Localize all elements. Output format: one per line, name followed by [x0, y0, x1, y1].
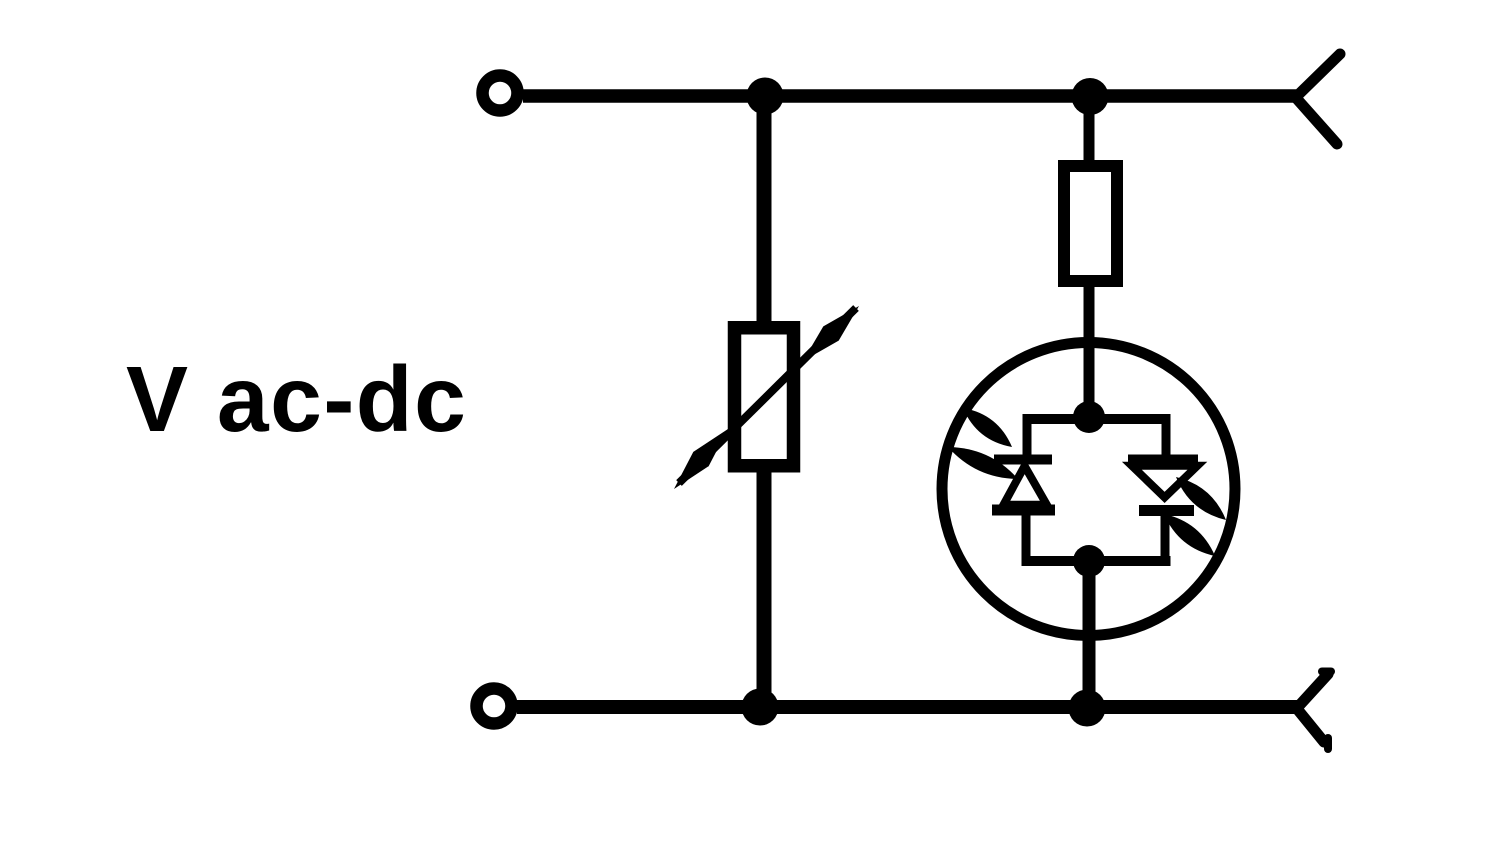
wire resistor top lead	[1084, 96, 1095, 168]
LED D1 triangle (points up)	[1004, 466, 1047, 505]
terminal T2 (bottom-left open circle)	[477, 689, 512, 724]
light arrow A4 (out of D2, lower)	[1164, 514, 1215, 556]
node A (junction dot top-left branch)	[747, 78, 784, 115]
node D (inner bottom junction)	[1073, 545, 1105, 577]
wire left branch upper	[757, 96, 772, 330]
wire inner top rail	[1023, 414, 1171, 424]
indicator lamp U1 envelope circle	[942, 343, 1235, 636]
wire inner right drop	[1162, 419, 1171, 460]
terminal T1 (top-left open circle)	[483, 76, 518, 111]
wire inner left drop	[1023, 419, 1032, 460]
svg-text:V ac-dc: V ac-dc	[126, 347, 467, 451]
node B (junction dot top-right branch)	[1072, 78, 1109, 115]
light arrow A3 (out of D2, upper)	[1176, 477, 1226, 520]
varistor RV1 adjustment arrow	[674, 306, 859, 489]
light arrow A2 (into D1, lower)	[948, 447, 1018, 479]
wire inner bottom rail	[1022, 556, 1171, 566]
LED D1 cathode bar	[994, 455, 1052, 465]
resistor R1 body	[1064, 166, 1117, 281]
LED D2 anode bar	[1128, 455, 1198, 465]
varistor RV1 body	[735, 328, 794, 466]
node E (junction dot bottom-left branch)	[742, 689, 779, 726]
off-page connector fork bottom-right	[1297, 672, 1331, 750]
node F (junction dot bottom-right branch)	[1069, 690, 1106, 727]
wire bottom bus	[517, 700, 1298, 714]
LED D2 cathode bar	[1139, 505, 1194, 516]
wire D1 bottom stub	[1022, 510, 1031, 561]
node C (inner top junction)	[1073, 401, 1105, 433]
wire top bus	[523, 89, 1296, 103]
LED D1 base bar	[992, 505, 1055, 516]
light arrow A1 (into D1, upper)	[963, 408, 1012, 447]
LED D2 triangle (points down)	[1132, 466, 1198, 498]
off-page connector fork top-right	[1296, 54, 1340, 144]
wire lamp bottom lead	[1083, 561, 1096, 708]
wire D2 bottom stub	[1161, 511, 1170, 561]
wire left branch lower	[757, 464, 772, 707]
wire resistor bottom lead to lamp	[1084, 287, 1095, 418]
